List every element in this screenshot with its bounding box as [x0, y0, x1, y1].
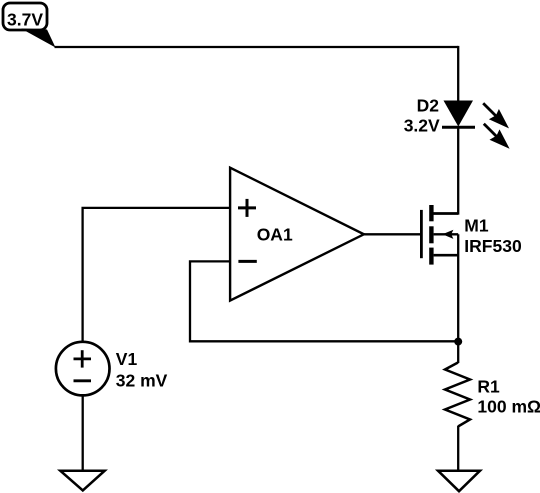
svg-text:3.7V: 3.7V	[7, 9, 43, 29]
MOSFET M1 source connection	[434, 254, 459, 257]
V1 plus symbol	[74, 350, 92, 367]
LED D2 cathode bar	[442, 126, 475, 129]
V1 minus symbol	[74, 379, 92, 382]
svg-text:32 mV: 32 mV	[116, 371, 168, 391]
MOSFET M1 channel middle bar	[429, 226, 433, 243]
wire junction to resistor	[457, 341, 459, 363]
op-amp - input symbol	[238, 260, 256, 263]
wire resistor to ground right	[457, 426, 459, 471]
svg-text:M1: M1	[464, 216, 489, 236]
wire LED cathode to MOSFET drain	[457, 127, 459, 214]
ground symbol right	[438, 471, 480, 492]
svg-text:IRF530: IRF530	[464, 236, 522, 256]
op-amp + input symbol	[238, 199, 256, 217]
svg-text:100 mΩ: 100 mΩ	[477, 397, 540, 417]
LED light arrow 1	[483, 103, 509, 128]
LED D2 diode triangle	[444, 101, 474, 127]
MOSFET M1 drain connection	[434, 212, 459, 215]
wire vertical from top wire down to LED anode	[457, 46, 459, 102]
callout pointer wedge	[21, 29, 56, 48]
wire MOSFET source/body down to junction	[457, 234, 459, 342]
MOSFET M1 channel top bar	[429, 205, 433, 221]
junction node dot	[454, 338, 462, 346]
resistor R1 zigzag	[445, 363, 470, 427]
MOSFET M1 gate line	[420, 210, 423, 258]
svg-text:3.2V: 3.2V	[404, 116, 440, 136]
voltage source V1 circle	[56, 342, 110, 396]
net label 3.7V callout box	[3, 3, 47, 30]
op-amp OA1 triangle	[230, 168, 364, 301]
wire top horizontal from 3.7V to drain column	[55, 46, 459, 48]
MOSFET M1 channel bottom bar	[429, 248, 433, 265]
svg-text:V1: V1	[116, 349, 138, 369]
wire noninverting input to V1 top corner	[83, 208, 231, 343]
MOSFET M1 body line with arrow	[434, 230, 459, 239]
LED light arrow 2	[484, 124, 510, 149]
svg-text:R1: R1	[477, 376, 500, 396]
wire inverting input feedback	[190, 261, 458, 341]
wire V1 bottom to ground	[82, 395, 84, 471]
wire op-amp output to gate	[364, 233, 422, 235]
svg-text:OA1: OA1	[257, 224, 293, 244]
svg-text:D2: D2	[417, 96, 440, 116]
ground symbol left	[60, 471, 104, 491]
